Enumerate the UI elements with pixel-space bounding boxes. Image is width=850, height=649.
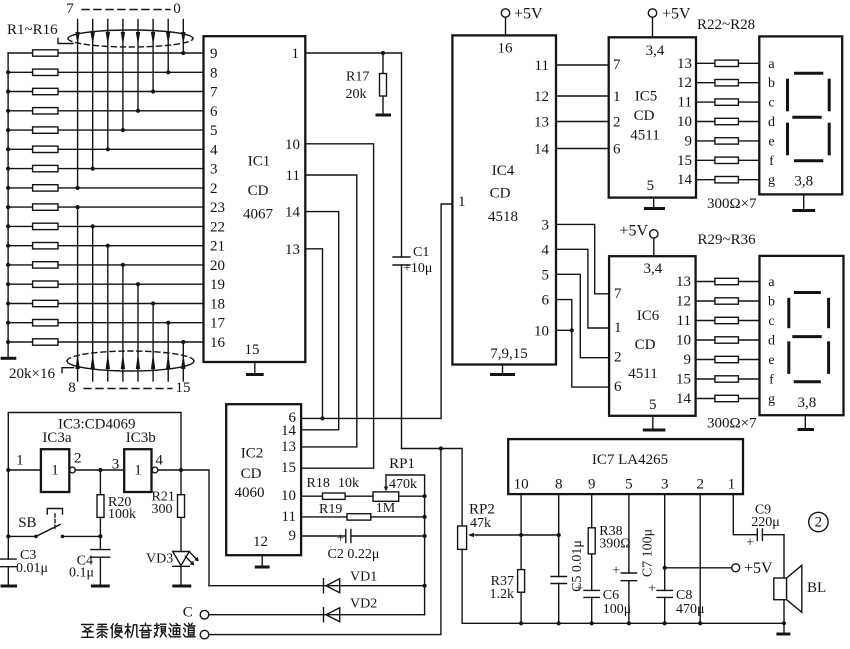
svg-text:C1: C1 bbox=[413, 245, 429, 260]
svg-text:2: 2 bbox=[815, 515, 823, 531]
capacitor C7 with IC7 pin5 column bbox=[612, 494, 655, 623]
resistor R26 bbox=[696, 138, 759, 144]
svg-text:RP1: RP1 bbox=[389, 456, 415, 472]
resistor R2 bbox=[8, 69, 203, 75]
label R29~R36 bbox=[698, 232, 757, 248]
svg-text:4067: 4067 bbox=[243, 207, 274, 223]
label: to VCR audio channel (Chinese characters, hand drawn) bbox=[82, 623, 196, 638]
svg-text:10: 10 bbox=[281, 488, 296, 504]
svg-text:12: 12 bbox=[676, 294, 691, 310]
svg-text:1: 1 bbox=[614, 320, 622, 336]
svg-text:R19: R19 bbox=[319, 502, 342, 517]
svg-text:5: 5 bbox=[649, 397, 657, 413]
power +5V (IC5) bbox=[648, 6, 691, 38]
wire: oscillator node column to diodes bbox=[423, 496, 427, 615]
svg-text:2: 2 bbox=[613, 115, 621, 131]
7-segment display DS1 bbox=[759, 36, 842, 194]
svg-text:d: d bbox=[768, 334, 775, 349]
svg-text:5: 5 bbox=[647, 178, 655, 194]
resistor R13 bbox=[8, 281, 203, 287]
svg-text:R22~R28: R22~R28 bbox=[697, 17, 755, 33]
svg-text:IC2: IC2 bbox=[241, 445, 264, 461]
svg-text:6: 6 bbox=[613, 142, 621, 158]
ground (IC5 pin 5) bbox=[644, 198, 665, 209]
ground (DS1) bbox=[792, 194, 815, 210]
svg-text:4511: 4511 bbox=[628, 366, 657, 382]
resistor R8 bbox=[8, 185, 203, 191]
svg-text:3: 3 bbox=[112, 456, 120, 472]
svg-text:19: 19 bbox=[210, 277, 225, 293]
svg-text:10: 10 bbox=[514, 476, 529, 492]
svg-text:CD: CD bbox=[635, 337, 656, 353]
svg-text:0: 0 bbox=[173, 1, 181, 17]
svg-text:1: 1 bbox=[134, 463, 142, 479]
svg-text:4060: 4060 bbox=[235, 485, 265, 501]
wire: IC4 pin11 to IC5 pin7 bbox=[556, 64, 609, 66]
svg-text:13: 13 bbox=[281, 439, 296, 455]
potentiometer RP2 47k bbox=[458, 502, 521, 624]
svg-text:9: 9 bbox=[684, 352, 692, 368]
svg-text:C6: C6 bbox=[603, 588, 619, 603]
svg-text:IC6: IC6 bbox=[637, 308, 660, 324]
svg-text:13: 13 bbox=[677, 56, 692, 72]
svg-text:10k: 10k bbox=[338, 476, 359, 491]
wire: IC1 pin10 to IC2 pin15 bbox=[301, 144, 374, 468]
capacitor C5 with IC7 pin8 column bbox=[551, 494, 585, 623]
ground (R17) bbox=[376, 114, 392, 117]
resistor R18 with wire IC2 pin10 bbox=[301, 476, 373, 499]
label bus bits 7..0 bbox=[66, 1, 181, 17]
resistor R9 bbox=[8, 204, 203, 210]
svg-text:5: 5 bbox=[210, 123, 218, 139]
svg-text:IC1: IC1 bbox=[248, 154, 271, 170]
ground (IC6 pin 5) bbox=[643, 416, 666, 430]
svg-text:e: e bbox=[768, 353, 774, 368]
resistor R17 bbox=[346, 53, 387, 114]
ground (C3) bbox=[1, 585, 18, 588]
svg-text:0.01μ: 0.01μ bbox=[16, 561, 48, 576]
svg-text:+: + bbox=[746, 536, 754, 551]
svg-text:9: 9 bbox=[289, 528, 297, 544]
IC7 LA4265 bbox=[508, 439, 743, 494]
svg-text:10: 10 bbox=[677, 114, 692, 130]
svg-text:5: 5 bbox=[625, 476, 633, 492]
svg-text:300Ω×7: 300Ω×7 bbox=[707, 196, 757, 212]
resistor R6 bbox=[8, 146, 203, 152]
cable bundle ellipse (top) bbox=[68, 30, 193, 47]
svg-text:15: 15 bbox=[677, 153, 692, 169]
svg-text:6: 6 bbox=[542, 293, 550, 309]
svg-text:14: 14 bbox=[677, 172, 693, 188]
svg-text:0.1μ: 0.1μ bbox=[69, 566, 94, 581]
wire: IC2 pin6 to IC4 pin1 bbox=[301, 204, 452, 418]
svg-text:11: 11 bbox=[677, 313, 691, 329]
ground (left rail) bbox=[1, 357, 17, 360]
svg-text:+: + bbox=[575, 582, 583, 597]
svg-text:+: + bbox=[612, 564, 620, 579]
speaker BL bbox=[774, 535, 826, 624]
svg-text:14: 14 bbox=[281, 423, 297, 439]
IC2 CD4060 bbox=[226, 404, 301, 555]
svg-text:a: a bbox=[768, 275, 775, 290]
svg-text:R18: R18 bbox=[307, 476, 330, 491]
inverter IC3a bbox=[8, 430, 81, 492]
svg-text:5: 5 bbox=[542, 267, 550, 283]
resistor R35 bbox=[696, 395, 760, 401]
svg-text:4511: 4511 bbox=[630, 128, 659, 144]
svg-text:300: 300 bbox=[152, 502, 173, 517]
svg-text:4: 4 bbox=[155, 453, 163, 469]
svg-text:8: 8 bbox=[210, 65, 218, 81]
ground (DS2) bbox=[798, 415, 815, 429]
capacitor C2 with wire IC2 pin9 bbox=[301, 530, 427, 563]
ground (IC2 pin 12) bbox=[255, 555, 270, 567]
resistor R7 bbox=[8, 165, 203, 171]
svg-text:15: 15 bbox=[176, 380, 191, 396]
svg-text:4: 4 bbox=[542, 242, 550, 258]
wire: IC4 pin12 to IC5 pin1 bbox=[556, 95, 609, 97]
svg-text:f: f bbox=[769, 154, 774, 169]
wire: IC4 pin5 to IC6 pin2 bbox=[556, 274, 609, 357]
resistor R38 with IC7 pin9 column bbox=[588, 494, 631, 590]
wire: IC4 pin6 to IC6 pin6 bbox=[556, 300, 609, 388]
svg-text:VD2: VD2 bbox=[350, 597, 377, 612]
left supply rail bbox=[6, 53, 10, 358]
svg-text:20: 20 bbox=[210, 258, 225, 274]
capacitor C1 bbox=[393, 53, 432, 449]
svg-text:C: C bbox=[183, 605, 193, 621]
svg-text:10: 10 bbox=[285, 137, 300, 153]
svg-text:10: 10 bbox=[534, 323, 549, 339]
svg-text:12: 12 bbox=[253, 534, 268, 550]
svg-text:100μ: 100μ bbox=[603, 602, 632, 617]
circled figure number 2 bbox=[809, 512, 828, 531]
svg-text:15: 15 bbox=[245, 342, 260, 358]
svg-text:6: 6 bbox=[614, 379, 622, 395]
cable bundle ellipse (bottom) bbox=[67, 351, 194, 371]
IC4 CD4518 bbox=[452, 35, 556, 364]
svg-text:1: 1 bbox=[458, 194, 466, 210]
ground (VD3) bbox=[172, 585, 191, 588]
svg-text:IC3a: IC3a bbox=[42, 430, 72, 446]
resistor R21 bbox=[152, 490, 185, 552]
IC1 CD4067 bbox=[204, 36, 306, 362]
svg-text:f: f bbox=[769, 373, 774, 388]
svg-text:14: 14 bbox=[534, 142, 550, 158]
resistor R19 with wire IC2 pin11 bbox=[301, 501, 427, 520]
svg-text:CD: CD bbox=[248, 183, 269, 199]
svg-text:BL: BL bbox=[807, 580, 826, 596]
svg-text:3,8: 3,8 bbox=[794, 173, 813, 189]
svg-text:7: 7 bbox=[614, 286, 622, 302]
resistor R1 bbox=[8, 50, 203, 56]
svg-text:g: g bbox=[768, 392, 775, 407]
svg-text:b: b bbox=[768, 295, 775, 310]
resistor R14 bbox=[8, 300, 203, 306]
resistor R33 bbox=[696, 356, 760, 362]
resistor R27 bbox=[696, 157, 759, 163]
resistor R4 bbox=[8, 108, 203, 114]
svg-text:1: 1 bbox=[613, 89, 621, 105]
svg-text:+5V: +5V bbox=[619, 223, 648, 240]
resistor R12 bbox=[8, 262, 203, 268]
label 20k x 16 bbox=[9, 366, 74, 382]
svg-text:9: 9 bbox=[210, 46, 218, 62]
svg-text:c: c bbox=[768, 314, 774, 329]
wire: IC4 pin13 to IC5 pin2 bbox=[556, 121, 609, 123]
svg-text:7: 7 bbox=[613, 57, 621, 73]
power +5V (IC4 pin16) bbox=[501, 6, 543, 36]
svg-text:1: 1 bbox=[728, 476, 736, 492]
svg-text:VD3: VD3 bbox=[146, 552, 173, 567]
wire: address bus columns (top group) with junctions bbox=[76, 20, 186, 190]
svg-text:6: 6 bbox=[210, 104, 218, 120]
svg-text:R17: R17 bbox=[346, 70, 369, 85]
svg-text:3,8: 3,8 bbox=[798, 395, 817, 411]
label 300 ohm x7 (lower) bbox=[707, 416, 757, 432]
svg-text:e: e bbox=[768, 134, 774, 149]
svg-text:+5V: +5V bbox=[662, 6, 691, 23]
svg-text:7,9,15: 7,9,15 bbox=[490, 346, 528, 362]
ground (C4) bbox=[91, 585, 110, 588]
svg-text:14: 14 bbox=[285, 205, 301, 221]
svg-text:4: 4 bbox=[210, 142, 218, 158]
svg-text:17: 17 bbox=[210, 316, 226, 332]
svg-text:b: b bbox=[768, 76, 775, 91]
svg-text:12: 12 bbox=[677, 75, 692, 91]
label bus bits 8..15 bbox=[68, 380, 190, 396]
svg-text:9: 9 bbox=[588, 476, 596, 492]
svg-text:IC3b: IC3b bbox=[126, 430, 156, 446]
label 300 ohm x7 (upper) bbox=[707, 196, 757, 212]
svg-text:C2 0.22μ: C2 0.22μ bbox=[328, 547, 380, 562]
svg-text:CD: CD bbox=[490, 186, 511, 202]
svg-text:1: 1 bbox=[292, 46, 300, 62]
svg-text:+5V: +5V bbox=[514, 6, 543, 23]
svg-text:11: 11 bbox=[535, 58, 549, 74]
svg-text:R1~R16: R1~R16 bbox=[7, 22, 58, 38]
svg-text:16: 16 bbox=[498, 40, 514, 56]
resistor R37 with IC7 pin10 column bbox=[490, 494, 525, 623]
svg-text:+10μ: +10μ bbox=[403, 261, 432, 276]
svg-text:3,4: 3,4 bbox=[646, 43, 665, 59]
ground (IC1 pin 15) bbox=[246, 362, 264, 375]
resistor R16 bbox=[8, 339, 203, 345]
svg-text:10: 10 bbox=[676, 333, 691, 349]
bottom common rail bbox=[462, 621, 786, 625]
resistor R10 bbox=[8, 223, 203, 229]
svg-text:16: 16 bbox=[210, 335, 226, 351]
wire: IC1 pin11 to IC2 pin13 bbox=[301, 175, 357, 447]
resistor R32 bbox=[696, 337, 760, 343]
diode VD1 bbox=[209, 570, 425, 593]
svg-text:C7 100μ: C7 100μ bbox=[641, 529, 656, 577]
svg-text:11: 11 bbox=[286, 168, 300, 184]
svg-text:1: 1 bbox=[16, 453, 24, 469]
svg-text:300Ω×7: 300Ω×7 bbox=[707, 416, 757, 432]
wire: RP2 wiper to IC7 pin8 bbox=[519, 533, 561, 537]
wire: audio out node down to VCR terminal bbox=[200, 449, 441, 639]
svg-text:+5V: +5V bbox=[744, 560, 773, 577]
svg-text:22: 22 bbox=[210, 219, 225, 235]
svg-text:11: 11 bbox=[678, 95, 692, 111]
svg-text:VD1: VD1 bbox=[350, 570, 377, 585]
power +5V terminal (IC7 pin3) bbox=[665, 560, 773, 577]
svg-text:3: 3 bbox=[210, 162, 218, 178]
svg-text:20k×16: 20k×16 bbox=[9, 366, 55, 382]
svg-text:d: d bbox=[768, 115, 775, 130]
resistor R24 bbox=[696, 99, 759, 105]
svg-text:13: 13 bbox=[676, 274, 691, 290]
wire: C1 node to RP2 top bbox=[402, 446, 463, 526]
inverter IC3b bbox=[75, 430, 163, 492]
power +5V (IC6) bbox=[619, 223, 658, 257]
svg-text:8: 8 bbox=[555, 476, 563, 492]
ground (IC4 pins 7,9,15) bbox=[490, 365, 515, 375]
capacitor C4 bbox=[69, 550, 110, 585]
svg-text:14: 14 bbox=[676, 391, 692, 407]
wire: IC4 pin4 to IC6 pin1 bbox=[556, 249, 609, 328]
capacitor C6 bbox=[575, 582, 631, 624]
label R1~R16 bbox=[7, 22, 73, 44]
resistor R11 bbox=[8, 243, 203, 249]
svg-text:7: 7 bbox=[210, 85, 218, 101]
svg-text:IC4: IC4 bbox=[492, 163, 515, 179]
capacitor C3 bbox=[1, 548, 49, 585]
svg-text:390Ω: 390Ω bbox=[599, 537, 630, 552]
svg-text:SB: SB bbox=[18, 515, 36, 531]
wire: IC4 pin10 tap bbox=[556, 329, 572, 331]
capacitor C8 with IC7 pin3 column bbox=[648, 494, 704, 623]
svg-text:11: 11 bbox=[282, 509, 296, 525]
potentiometer RP1 470k bbox=[373, 456, 427, 502]
svg-text:9: 9 bbox=[685, 133, 693, 149]
svg-text:CD: CD bbox=[241, 466, 262, 482]
label R22~R28 bbox=[697, 17, 755, 33]
wire: IC3b output to VD1 bbox=[158, 470, 209, 586]
svg-text:2: 2 bbox=[74, 451, 82, 467]
svg-text:470k: 470k bbox=[389, 477, 417, 492]
wire: IC1 pin1 to R17 and C1 node bbox=[305, 51, 401, 55]
wire: IC3 feedback top bbox=[6, 413, 183, 560]
svg-text:3: 3 bbox=[661, 476, 669, 492]
svg-text:15: 15 bbox=[281, 460, 296, 476]
ground (speaker/rail) bbox=[776, 623, 790, 634]
svg-text:a: a bbox=[768, 57, 775, 72]
wire: IC1 pin14 to IC2 pin14 bbox=[301, 212, 339, 430]
capacitor C9 with IC7 pin1 bbox=[733, 494, 784, 550]
resistor R3 bbox=[8, 88, 203, 94]
resistor R22 bbox=[696, 60, 759, 66]
LED VD3 bbox=[146, 552, 199, 586]
resistor R29 bbox=[696, 278, 760, 284]
wire: IC4 pin14 to IC5 pin6 bbox=[556, 148, 609, 150]
resistor R30 bbox=[696, 298, 760, 304]
svg-text:2: 2 bbox=[696, 476, 704, 492]
wire: IC4 pin3 to IC6 pin7 bbox=[556, 224, 609, 293]
resistor R20 bbox=[97, 470, 136, 550]
IC6 CD4511 bbox=[609, 256, 696, 416]
svg-text:4518: 4518 bbox=[488, 209, 518, 225]
svg-text:220μ: 220μ bbox=[751, 515, 780, 530]
svg-text:7: 7 bbox=[66, 1, 74, 17]
svg-text:2: 2 bbox=[614, 350, 622, 366]
wire: IC1 pin13 to IC2 pin6 node bbox=[305, 249, 324, 421]
svg-text:12: 12 bbox=[534, 89, 549, 105]
svg-text:1M: 1M bbox=[376, 501, 396, 516]
wire: address bus columns (bottom group) with junctions bbox=[76, 205, 186, 381]
svg-text:13: 13 bbox=[534, 115, 549, 131]
svg-text:20k: 20k bbox=[346, 87, 367, 102]
7-segment display DS2 bbox=[760, 256, 844, 415]
svg-text:2: 2 bbox=[210, 181, 218, 197]
svg-text:IC7 LA4265: IC7 LA4265 bbox=[592, 452, 668, 468]
svg-text:47k: 47k bbox=[470, 516, 491, 531]
svg-text:C8: C8 bbox=[676, 588, 692, 603]
svg-text:13: 13 bbox=[285, 242, 300, 258]
svg-text:3: 3 bbox=[542, 217, 550, 233]
wire: IC7 pin2 column bbox=[699, 494, 701, 623]
svg-text:1.2k: 1.2k bbox=[490, 587, 515, 602]
resistor R31 bbox=[696, 317, 760, 323]
svg-text:3,4: 3,4 bbox=[644, 261, 663, 277]
svg-text:15: 15 bbox=[676, 372, 691, 388]
switch SB bbox=[8, 509, 100, 539]
svg-text:R29~R36: R29~R36 bbox=[698, 232, 757, 248]
svg-text:21: 21 bbox=[210, 239, 225, 255]
svg-text:+: + bbox=[648, 582, 656, 597]
resistor R5 bbox=[8, 127, 203, 133]
svg-text:IC5: IC5 bbox=[635, 89, 658, 105]
svg-text:1: 1 bbox=[51, 463, 59, 479]
resistor R23 bbox=[696, 80, 759, 86]
svg-text:+: + bbox=[337, 532, 345, 547]
label IC3:CD4069 bbox=[58, 417, 136, 433]
svg-text:8: 8 bbox=[68, 380, 76, 396]
svg-text:c: c bbox=[768, 96, 774, 111]
resistor R25 bbox=[696, 118, 759, 124]
svg-text:g: g bbox=[768, 173, 775, 188]
svg-text:23: 23 bbox=[210, 200, 225, 216]
svg-text:CD: CD bbox=[634, 108, 655, 124]
resistor R15 bbox=[8, 320, 203, 326]
svg-text:18: 18 bbox=[210, 297, 225, 313]
svg-text:100k: 100k bbox=[108, 507, 136, 522]
IC5 CD4511 bbox=[609, 37, 696, 197]
resistor R34 bbox=[696, 376, 760, 382]
diode VD2 with C terminal bbox=[183, 597, 425, 622]
resistor R28 bbox=[696, 177, 759, 183]
